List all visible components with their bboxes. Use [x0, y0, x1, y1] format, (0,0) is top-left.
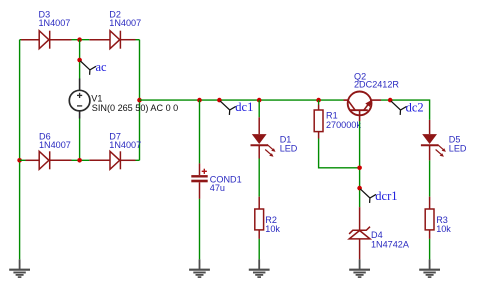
svg-text:47u: 47u [210, 183, 225, 193]
ground R3 [419, 259, 440, 277]
svg-text:1N4007: 1N4007 [109, 18, 141, 28]
ground R2 [249, 259, 270, 277]
wire ac branch lower [79, 119, 81, 161]
svg-text:V1: V1 [91, 93, 102, 103]
junction bottom left [17, 158, 22, 163]
resistor R2 [255, 197, 264, 239]
resistor R3 [425, 197, 434, 239]
svg-text:LED: LED [449, 144, 467, 154]
svg-text:dcr1: dcr1 [375, 189, 397, 203]
node dcr1 junction [357, 186, 362, 191]
wire capacitor branch upper [199, 100, 201, 163]
junction rail left [137, 98, 142, 103]
LED D5 [421, 120, 446, 160]
svg-text:1N4007: 1N4007 [109, 140, 141, 150]
node dc2 junction [388, 98, 393, 103]
wire R1 top stub [318, 100, 320, 104]
svg-text:10k: 10k [436, 224, 451, 234]
junction capacitor [197, 98, 202, 103]
voltage source V1 [69, 79, 90, 119]
diode D6 [26, 151, 72, 169]
transistor Q2 [344, 92, 382, 122]
ground capacitor [189, 259, 210, 277]
node dc2 probe [391, 101, 407, 115]
svg-text:dc1: dc1 [235, 100, 253, 114]
wire dc rail [140, 99, 344, 101]
svg-text:ac: ac [96, 60, 108, 74]
wire top row left corner [20, 39, 22, 41]
LED D1 [251, 117, 276, 158]
svg-text:10k: 10k [265, 224, 280, 234]
wire R1 bottom L to base junction [319, 139, 360, 168]
node ac probe [80, 61, 96, 75]
svg-text:2DC2412R: 2DC2412R [354, 80, 399, 90]
wire bottom row mid [72, 159, 90, 161]
wire ac branch upper [79, 40, 81, 79]
junction LED D1 branch [257, 98, 262, 103]
wire bottom row right corner [136, 159, 140, 161]
junction top bridge [77, 37, 82, 42]
wire top row right corner [136, 39, 140, 41]
wire bridge right vertical [139, 40, 141, 161]
wire bottom row left [20, 159, 26, 161]
ground D4 [349, 259, 370, 277]
diode D3 [21, 31, 72, 49]
junction base/R1 [357, 166, 362, 171]
wire emitter to D5 corner [381, 100, 430, 120]
node dcr1 probe [360, 189, 376, 203]
wire left vertical (bridge left side down to ground) [19, 40, 21, 260]
svg-text:SIN(0 265 50) AC 0 0: SIN(0 265 50) AC 0 0 [92, 103, 178, 113]
node dc1 probe [220, 101, 236, 115]
wire top row mid [72, 39, 90, 41]
junction bottom bridge [77, 158, 82, 163]
ground left [9, 259, 30, 277]
node dc1 junction [217, 98, 222, 103]
svg-text:1N4742A: 1N4742A [371, 239, 410, 249]
svg-text:1N4007: 1N4007 [39, 18, 71, 28]
wire R3 to ground [429, 239, 431, 260]
capacitor COND1 [191, 163, 207, 199]
svg-text:1N4007: 1N4007 [39, 140, 71, 150]
junction R1 top [316, 98, 321, 103]
svg-text:dc2: dc2 [406, 100, 424, 114]
diode D7 [89, 151, 135, 169]
zener diode D4 [349, 207, 370, 259]
wire D1 branch upper [258, 100, 260, 117]
wire capacitor branch lower [199, 199, 201, 260]
resistor R1 [314, 105, 323, 139]
wire D5 to R3 [429, 160, 431, 196]
node ac junction [77, 58, 82, 63]
wire R2 to ground [258, 239, 260, 260]
wire D1 to R2 [258, 159, 260, 197]
svg-text:LED: LED [280, 144, 298, 154]
diode D2 [89, 31, 135, 49]
wire Q2 base down [359, 121, 361, 207]
svg-text:270000k: 270000k [326, 120, 361, 130]
